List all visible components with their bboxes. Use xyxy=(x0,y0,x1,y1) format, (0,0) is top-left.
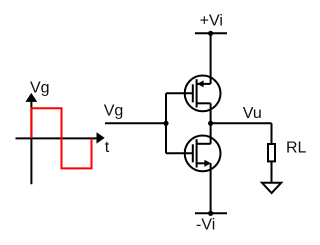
svg-text:Vg: Vg xyxy=(104,103,124,120)
svg-text:t: t xyxy=(105,139,110,156)
svg-text:RL: RL xyxy=(286,139,307,156)
svg-text:-Vi: -Vi xyxy=(196,217,215,234)
svg-text:Vg: Vg xyxy=(30,80,50,97)
svg-text:+Vi: +Vi xyxy=(200,13,223,30)
svg-text:Vu: Vu xyxy=(243,105,262,122)
